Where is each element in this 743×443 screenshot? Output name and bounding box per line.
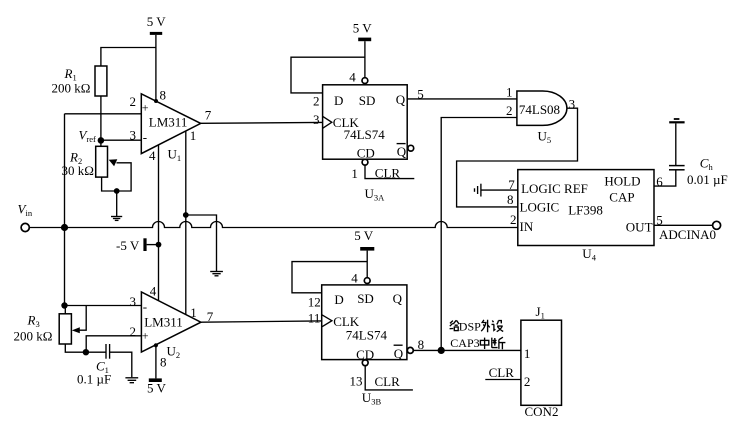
svg-text:CD: CD bbox=[357, 145, 375, 160]
hanzi 给 bbox=[450, 320, 460, 328]
svg-text:D: D bbox=[334, 93, 343, 108]
svg-text:SD: SD bbox=[357, 291, 374, 306]
wire CAP3 net up to U5 pin 2 bbox=[441, 118, 517, 351]
svg-text:+: + bbox=[142, 101, 149, 115]
dot U1 pin8 on edge bbox=[154, 99, 158, 103]
svg-text:-: - bbox=[143, 299, 147, 314]
node Vin rail bbox=[61, 224, 68, 231]
svg-text:LM311: LM311 bbox=[144, 315, 183, 330]
svg-text:2: 2 bbox=[130, 94, 137, 109]
hanzi 断 bbox=[492, 337, 506, 349]
svg-text:LOGIC REF: LOGIC REF bbox=[521, 181, 588, 196]
svg-text:5 V: 5 V bbox=[354, 228, 374, 243]
svg-text:1: 1 bbox=[506, 85, 513, 100]
svg-text:200 kΩ: 200 kΩ bbox=[52, 81, 91, 96]
label DSP interrupt (Chinese) line 1: 给DSP外设 bbox=[450, 320, 504, 334]
wire Vref to U1 pin 3 bbox=[101, 139, 141, 141]
5V supply (top left, U1 pin 8) bbox=[147, 14, 167, 101]
terminal Vin bbox=[18, 202, 33, 232]
wire U1 output to U3A CLK bbox=[201, 121, 323, 124]
svg-text:LF398: LF398 bbox=[568, 203, 603, 218]
wire U3A D loop to 5V bbox=[291, 57, 365, 93]
svg-text:CON2: CON2 bbox=[525, 404, 559, 419]
svg-text:2: 2 bbox=[524, 374, 531, 389]
svg-text:3: 3 bbox=[569, 97, 576, 112]
label DSP interrupt (Chinese) line 2: CAP3中断 bbox=[450, 336, 505, 350]
svg-text:4: 4 bbox=[149, 148, 156, 163]
Vin bus wire with hops bbox=[29, 222, 518, 228]
svg-text:3: 3 bbox=[130, 128, 137, 143]
svg-text:Q: Q bbox=[394, 346, 404, 361]
sample-hold U4 LF398 bbox=[507, 170, 663, 263]
svg-text:SD: SD bbox=[359, 93, 376, 108]
svg-text:0.01 µF: 0.01 µF bbox=[687, 172, 728, 187]
wire U3A CLR stub bbox=[365, 165, 414, 180]
svg-text:8: 8 bbox=[507, 192, 514, 207]
svg-text:74LS08: 74LS08 bbox=[519, 102, 560, 117]
wire U2 pin 2 down to C1 node bbox=[86, 336, 141, 352]
wire R3 node to U2 pin 3 bbox=[65, 305, 142, 307]
svg-text:Q: Q bbox=[393, 291, 403, 306]
svg-text:200 kΩ: 200 kΩ bbox=[14, 329, 53, 344]
svg-text:2: 2 bbox=[130, 324, 137, 339]
wire pin 6 to hold capacitor bbox=[654, 170, 676, 186]
rail U1 pin1 to U2 pin1 bbox=[185, 131, 187, 315]
node pin1 net bbox=[183, 212, 189, 218]
svg-text:DSP: DSP bbox=[459, 320, 481, 334]
svg-text:8: 8 bbox=[160, 88, 167, 103]
hanzi 外 bbox=[481, 320, 490, 333]
node C1 bbox=[83, 349, 89, 355]
svg-text:CLR: CLR bbox=[375, 165, 401, 180]
wire R3 bottom to C1 node bbox=[65, 344, 86, 352]
svg-text:CAP3: CAP3 bbox=[450, 336, 479, 350]
svg-text:+: + bbox=[142, 329, 149, 343]
hanzi 设 bbox=[492, 321, 504, 332]
left vertical rail (Vin net) bbox=[64, 114, 66, 306]
wire R1 top branch to 5V bbox=[101, 48, 156, 67]
svg-text:CAP: CAP bbox=[609, 189, 634, 204]
svg-text:-5 V: -5 V bbox=[116, 238, 140, 253]
svg-text:2: 2 bbox=[506, 103, 513, 118]
svg-text:HOLD: HOLD bbox=[604, 174, 640, 189]
svg-text:Q: Q bbox=[396, 92, 406, 107]
svg-text:0.1 µF: 0.1 µF bbox=[77, 372, 111, 387]
svg-text:-: - bbox=[143, 130, 147, 145]
wire J1 CLR stub bbox=[485, 365, 521, 380]
svg-text:4: 4 bbox=[349, 70, 356, 85]
potentiometer R2 bbox=[62, 146, 132, 191]
wire U2 output to U3B CLK bbox=[201, 321, 322, 322]
svg-text:ADCINA0: ADCINA0 bbox=[659, 227, 716, 242]
5V supply (U3B) bbox=[354, 228, 374, 278]
svg-text:5 V: 5 V bbox=[147, 381, 167, 396]
capacitor Ch bbox=[669, 124, 728, 187]
svg-text:2: 2 bbox=[510, 212, 517, 227]
ground (below R2) bbox=[111, 191, 122, 220]
svg-text:4: 4 bbox=[150, 284, 157, 299]
5V supply (U3A) bbox=[353, 21, 373, 78]
wire U1 pin 2 to left rail bbox=[65, 113, 142, 115]
ground (below C1) bbox=[125, 378, 138, 383]
ground (pin1 net) bbox=[210, 272, 223, 276]
wire R1 bottom to Vref to R2 top bbox=[100, 96, 102, 146]
svg-text:7: 7 bbox=[205, 108, 212, 123]
5V supply (U2 pin 8, bottom) bbox=[147, 380, 167, 395]
hanzi 中 bbox=[480, 340, 488, 345]
svg-text:4: 4 bbox=[351, 271, 358, 286]
svg-text:Q: Q bbox=[397, 144, 407, 159]
node CAP3 net bbox=[438, 347, 445, 354]
wire U3B D loop to 5V bbox=[292, 262, 367, 293]
potentiometer R3 bbox=[14, 306, 87, 345]
op-amp U1 LM311 bbox=[130, 88, 212, 163]
node Vref bbox=[79, 128, 105, 145]
wire U3A Q to U5 pin 1 bbox=[407, 98, 517, 100]
connector J1 CON2 bbox=[521, 304, 562, 419]
svg-text:CLR: CLR bbox=[489, 365, 515, 380]
svg-text:1: 1 bbox=[524, 346, 531, 361]
wire U2 pin 8 to 5V bbox=[155, 345, 157, 379]
-5V supply bbox=[116, 238, 161, 253]
capacitor C1 bbox=[77, 344, 132, 387]
top bar symbol above Ch bbox=[669, 119, 684, 122]
svg-text:74LS74: 74LS74 bbox=[344, 127, 386, 142]
wire U5 output to LF398 LOGIC bbox=[457, 108, 578, 207]
terminal ADCINA0 bbox=[659, 221, 721, 242]
svg-text:LOGIC: LOGIC bbox=[520, 200, 560, 215]
junction dot R2 bottom bbox=[114, 188, 120, 194]
svg-text:11: 11 bbox=[308, 311, 321, 326]
resistor R1 bbox=[52, 66, 107, 96]
svg-text:D: D bbox=[334, 292, 343, 307]
svg-text:74LS74: 74LS74 bbox=[346, 328, 388, 343]
svg-text:13: 13 bbox=[350, 374, 363, 389]
wire U3B CLR stub bbox=[365, 366, 413, 390]
AND gate U5 74LS08 bbox=[506, 85, 575, 145]
svg-text:IN: IN bbox=[520, 219, 534, 234]
rail U1 pin4 to -5V to U2 pin4 bbox=[158, 145, 160, 301]
svg-text:OUT: OUT bbox=[626, 219, 653, 234]
flip-flop U3B 74LS74 bbox=[308, 271, 424, 407]
svg-text:1: 1 bbox=[351, 166, 358, 181]
svg-text:5 V: 5 V bbox=[353, 21, 373, 36]
op-amp U2 LM311 bbox=[130, 284, 214, 370]
wire OUT pin 5 to terminal bbox=[654, 224, 713, 226]
svg-text:8: 8 bbox=[160, 355, 167, 370]
svg-text:3: 3 bbox=[313, 112, 320, 127]
ground (LOGIC REF, rotated) bbox=[475, 184, 481, 197]
svg-text:5 V: 5 V bbox=[147, 14, 167, 29]
svg-text:30 kΩ: 30 kΩ bbox=[62, 163, 94, 178]
node R3 top bbox=[61, 302, 67, 308]
wire U3B Qbar to J1 pin 1 bbox=[413, 349, 521, 351]
svg-text:12: 12 bbox=[308, 295, 321, 310]
svg-text:1: 1 bbox=[190, 305, 197, 320]
svg-text:8: 8 bbox=[418, 337, 425, 352]
svg-text:2: 2 bbox=[313, 93, 320, 108]
svg-text:3: 3 bbox=[130, 294, 137, 309]
svg-text:LM311: LM311 bbox=[149, 115, 188, 130]
wire LOGIC REF pin 7 bbox=[481, 189, 518, 191]
wire ground stub from pin1 net bbox=[186, 215, 217, 271]
svg-text:CLR: CLR bbox=[375, 374, 401, 389]
flip-flop U3A 74LS74 bbox=[313, 70, 424, 203]
svg-text:1: 1 bbox=[190, 128, 197, 143]
dot U2 pin8 on edge bbox=[154, 343, 158, 347]
